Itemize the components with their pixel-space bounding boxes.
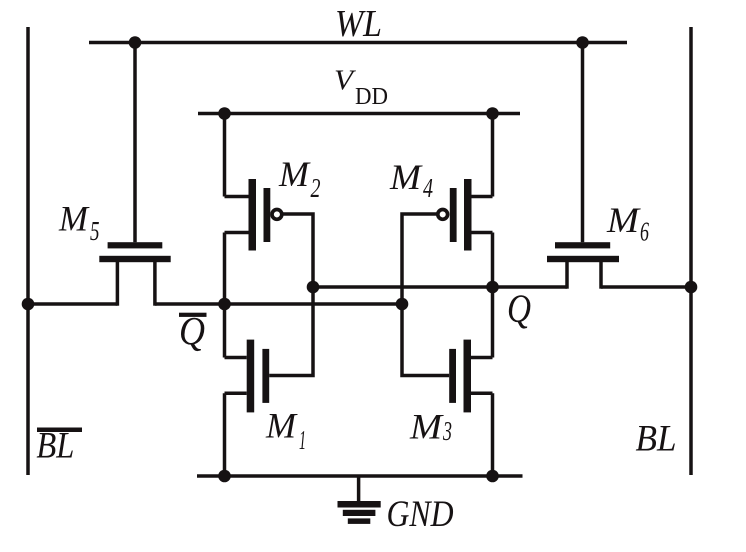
svg-text:6: 6	[640, 216, 649, 246]
wire M2 drain to QBar and M1 drain	[223, 233, 227, 358]
svg-text:M: M	[409, 407, 444, 447]
transistor M1	[225, 340, 270, 413]
svg-text:BL: BL	[36, 426, 74, 467]
svg-text:4: 4	[423, 173, 433, 203]
wire node QBar rail left segment	[28, 302, 117, 306]
wire M4 drain to Q and M3 drain	[491, 233, 495, 358]
svg-text:V: V	[334, 66, 356, 97]
junction QBar node	[218, 298, 231, 311]
svg-text:M: M	[389, 157, 423, 197]
transistor M6	[547, 242, 619, 289]
junction ground-M3	[486, 470, 499, 483]
svg-text:Q: Q	[179, 309, 205, 354]
junction BLbar-QBar	[22, 298, 35, 311]
label M4	[389, 157, 433, 203]
wire node QBar rail right segment	[155, 302, 402, 306]
wire node Q rail left segment	[313, 285, 567, 289]
bit line BLbar (left vertical)	[26, 27, 30, 475]
label node QBar	[179, 309, 207, 354]
junction VDD-M2	[218, 107, 231, 120]
transistor M4	[438, 179, 493, 251]
junction Q-M1M2 gates	[307, 281, 320, 294]
label BLbar	[36, 426, 82, 467]
transistor M3	[449, 340, 492, 413]
svg-text:M: M	[278, 154, 311, 194]
wire VDD to M2 source	[223, 114, 227, 197]
svg-text:WL: WL	[335, 3, 382, 45]
junction Q node	[486, 281, 499, 294]
label M6	[606, 200, 649, 246]
wire VDD to M4 source	[491, 114, 495, 197]
wire VDD supply line	[198, 112, 520, 116]
label VDD	[334, 66, 388, 110]
junction ground-M1	[218, 470, 231, 483]
wire M3 source to ground	[491, 393, 495, 476]
junction WL-M6	[576, 36, 589, 49]
transistor M5	[99, 242, 170, 306]
wire WL to M6 gate	[581, 43, 585, 243]
svg-text:DD: DD	[355, 84, 388, 110]
svg-text:BL: BL	[636, 419, 677, 460]
label M2	[278, 154, 321, 203]
wire node Q rail right segment	[601, 285, 691, 289]
label M3	[409, 407, 452, 447]
ground	[338, 476, 381, 524]
junction QBar-M3M4 gates	[396, 298, 409, 311]
wire M4 gate and M3 gate to node QBar	[402, 214, 449, 376]
svg-text:3: 3	[442, 416, 452, 446]
svg-text:2: 2	[311, 173, 321, 203]
wire M2 gate and M1 gate to node Q	[269, 214, 313, 376]
svg-text:M: M	[606, 200, 641, 240]
svg-text:5: 5	[90, 216, 100, 246]
svg-text:M: M	[58, 198, 90, 238]
svg-text:1: 1	[299, 425, 306, 455]
svg-text:M: M	[265, 406, 298, 446]
bit line BL (right vertical)	[689, 27, 693, 475]
wire WL to M5 gate	[133, 43, 137, 243]
transistor M2	[225, 179, 282, 251]
wire ground rail	[197, 474, 523, 478]
label M1	[265, 406, 306, 455]
junction WL-M5	[129, 36, 142, 49]
svg-text:GND: GND	[387, 494, 454, 535]
svg-text:Q: Q	[507, 286, 531, 331]
wire M1 source to ground	[223, 393, 227, 476]
junction VDD-M4	[486, 107, 499, 120]
wire WL word line	[89, 41, 627, 45]
junction BL-Q	[685, 281, 698, 294]
label M5	[58, 198, 99, 246]
